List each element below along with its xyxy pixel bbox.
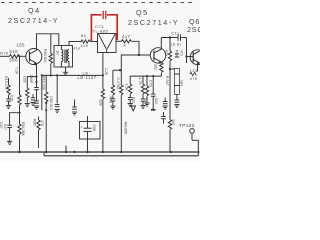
svg-text:471: 471 [179,50,183,56]
svg-text:Q5: Q5 [136,8,149,17]
svg-text:R13 474: R13 474 [4,76,8,90]
svg-text:1K: 1K [56,51,60,56]
svg-text:560P: 560P [29,75,33,84]
svg-text:2SC: 2SC [187,25,200,34]
svg-text:C66 013: C66 013 [49,96,53,110]
svg-text:C11: C11 [172,31,180,35]
svg-text:C70: C70 [148,80,152,87]
svg-text:R.047: R.047 [165,76,169,86]
svg-text:C-4782: C-4782 [116,78,120,90]
svg-text:R61: R61 [108,97,112,104]
svg-text:4.7K: 4.7K [138,78,142,86]
svg-text:R64: R64 [175,50,179,57]
svg-text:TL-885: TL-885 [93,28,109,33]
svg-text:510: 510 [10,49,19,54]
svg-text:418: 418 [81,44,89,48]
svg-text:015: 015 [10,95,14,101]
svg-text:R18 22K: R18 22K [42,76,46,91]
svg-text:41k: 41k [73,46,80,50]
svg-text:C65: C65 [23,76,27,83]
svg-text:102: 102 [153,64,157,70]
svg-text:022: 022 [131,97,135,103]
svg-text:R84 56K: R84 56K [21,122,25,137]
svg-text:184: 184 [180,80,184,86]
svg-text:8: 8 [124,44,127,48]
svg-text:+: + [81,125,83,129]
svg-text:047: 047 [3,124,7,130]
svg-text:473: 473 [40,120,44,126]
svg-text:2SC2714-Y: 2SC2714-Y [128,18,179,27]
svg-text:7.2K: 7.2K [14,67,18,75]
svg-text:1.5K: 1.5K [125,84,129,92]
svg-text:165: 165 [17,43,26,48]
svg-text:2SC2714-Y: 2SC2714-Y [8,16,59,25]
svg-text:R76: R76 [0,52,8,56]
svg-text:LB-1127: LB-1127 [78,75,97,80]
svg-text:628: 628 [99,100,103,106]
svg-text:151: 151 [171,119,175,125]
svg-text:123: 123 [190,69,198,73]
svg-text:47K: 47K [190,77,198,81]
svg-text:022: 022 [154,98,158,104]
svg-text:(8.8): (8.8) [171,42,181,46]
svg-text:Q4: Q4 [28,6,41,15]
svg-text:TP102: TP102 [179,123,195,128]
svg-text:C68: C68 [92,125,96,132]
svg-text:013: 013 [144,98,148,104]
svg-text:933: 933 [164,50,168,56]
svg-text:560: 560 [10,57,19,62]
svg-text:483-856: 483-856 [123,121,127,134]
svg-text:R85: R85 [32,119,36,126]
svg-text:2.2K: 2.2K [104,68,108,76]
svg-text:83: 83 [81,34,86,38]
svg-text:417: 417 [122,34,131,39]
svg-text:R83 824: R83 824 [43,49,47,63]
